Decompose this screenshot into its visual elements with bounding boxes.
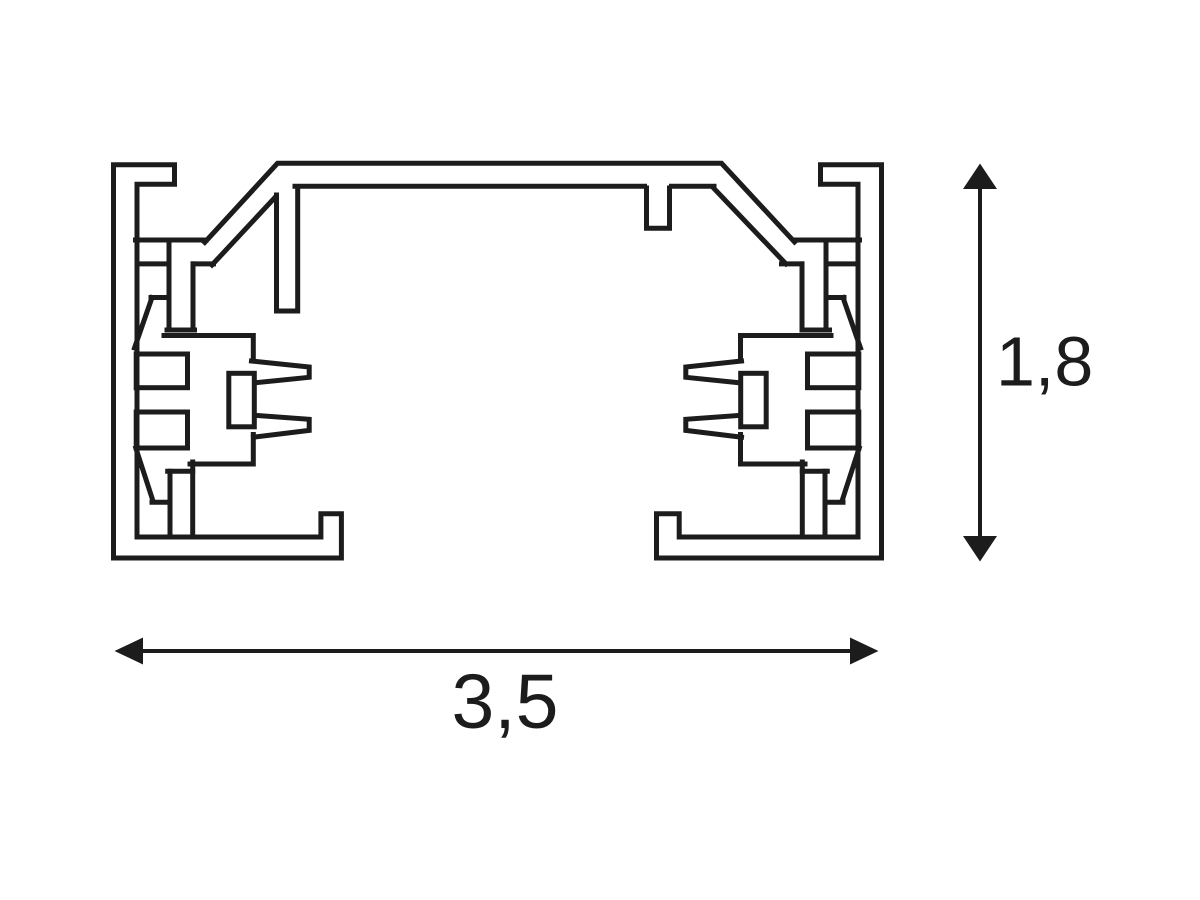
right upper slot wall B (800, 264, 805, 330)
arrowhead top (963, 164, 997, 190)
left copper conductor (229, 373, 255, 427)
left lower slot wall A (168, 471, 173, 537)
left upper slot wall A (167, 240, 172, 330)
right inner ledge segments (782, 261, 803, 266)
left upper prong (252, 361, 310, 383)
right wall window lower (808, 412, 859, 448)
right lower slot wall A (823, 471, 828, 537)
left wall window upper (136, 354, 187, 388)
right wall window upper (808, 354, 859, 388)
arrowhead right (850, 638, 879, 665)
left lower wedge (136, 448, 153, 501)
track profile: right wall, bottom-right foot, hook and inner clip outline (657, 165, 882, 558)
right lower wedge (842, 448, 859, 501)
svg-text:3,5: 3,5 (451, 659, 558, 745)
right lower slot cap (802, 469, 827, 474)
dimension line horizontal (3,5) (140, 649, 853, 653)
right copper conductor (741, 373, 767, 427)
left upper slot wall B (191, 264, 196, 330)
inner roof line right of tab (672, 184, 715, 189)
left inner diagonal (212, 197, 275, 265)
left lower prong (254, 415, 310, 437)
hanging tab right of centre (647, 188, 670, 228)
right lower slot wall B (800, 462, 805, 537)
arrowhead bottom (963, 536, 997, 562)
left clip bottom bar (136, 238, 207, 243)
left upper wedge (135, 298, 153, 349)
roof outer: left diagonal, flat top, right diagonal (205, 163, 795, 242)
arrowhead left (115, 638, 144, 665)
track profile: left wall, bottom-left foot, hook and inner clip outline (114, 165, 342, 558)
left lower slot cap (168, 469, 193, 474)
right lower prong (686, 415, 742, 437)
right clip bottom bar (794, 238, 860, 243)
right upper wedge (843, 298, 861, 349)
left insulator housing bottom (190, 435, 253, 465)
hanging rib left of centre (277, 188, 298, 312)
dimension line vertical (1,8) (978, 186, 982, 539)
svg-text:1,8: 1,8 (996, 323, 1093, 401)
right upper slot wall A (824, 240, 829, 330)
left wall window lower (136, 412, 187, 448)
right insulator housing top (741, 336, 832, 362)
right upper slot cap (803, 328, 830, 333)
left upper slot cap (167, 328, 195, 333)
right upper prong (686, 361, 742, 383)
left inner ledge segments (137, 261, 169, 266)
inner roof line left of tab (295, 184, 645, 189)
right insulator housing bottom (741, 435, 806, 465)
left insulator housing top (164, 336, 253, 362)
right inner diagonal (714, 188, 787, 264)
left lower slot wall B (190, 462, 195, 537)
